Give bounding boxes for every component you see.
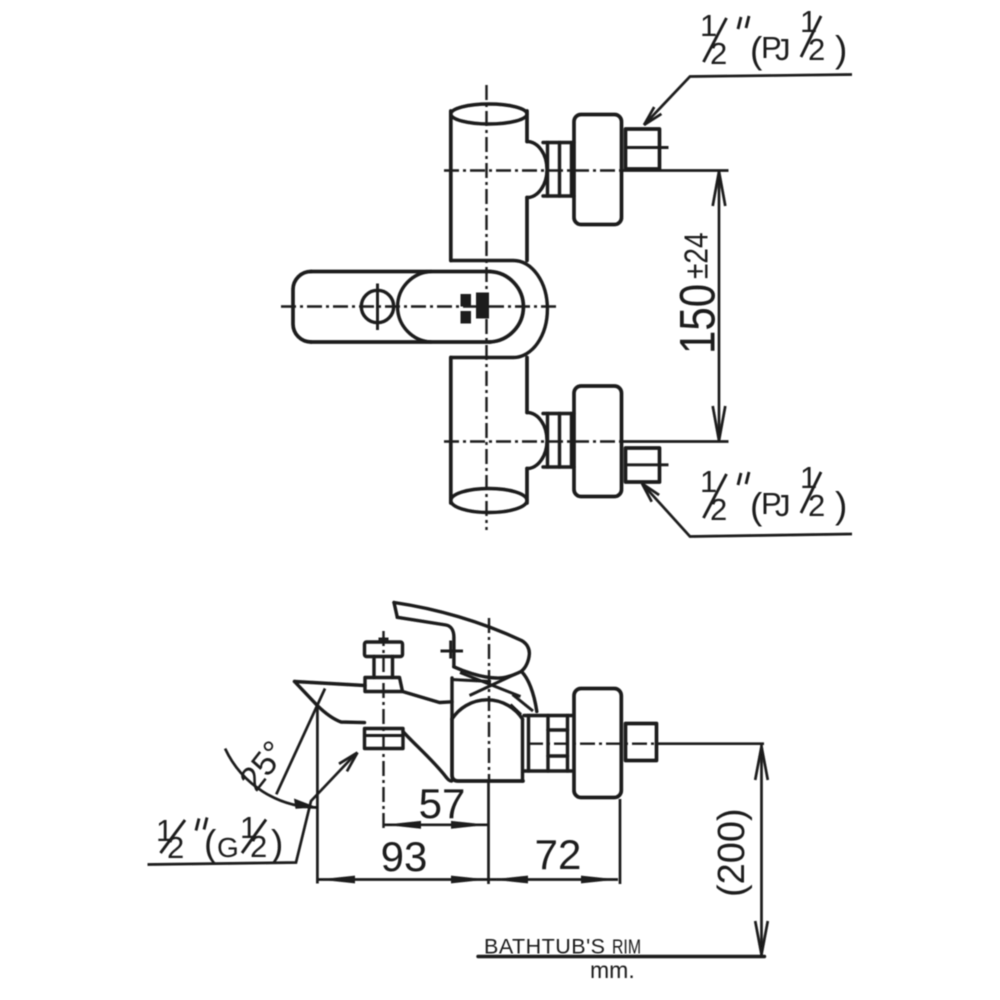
svg-text:2: 2 (710, 492, 727, 527)
svg-text:2: 2 (167, 830, 184, 865)
svg-text:G: G (217, 832, 239, 863)
svg-text:): ) (835, 29, 847, 70)
svg-text:J: J (775, 32, 791, 67)
svg-text:mm.: mm. (590, 957, 635, 983)
svg-text:J: J (775, 488, 791, 523)
svg-text:2: 2 (250, 829, 267, 864)
svg-text:(: ( (204, 823, 217, 864)
svg-text:BATHTUB'S: BATHTUB'S (484, 935, 605, 959)
svg-text:2: 2 (710, 36, 727, 71)
svg-text:): ) (835, 485, 847, 526)
svg-text:93: 93 (381, 833, 428, 880)
svg-text:RIM: RIM (612, 937, 641, 959)
svg-text:(200): (200) (711, 808, 753, 897)
svg-text:72: 72 (535, 831, 582, 878)
svg-text:): ) (271, 823, 283, 864)
svg-text:57: 57 (419, 780, 466, 827)
svg-text:2: 2 (808, 32, 825, 67)
svg-text:2: 2 (808, 488, 825, 523)
